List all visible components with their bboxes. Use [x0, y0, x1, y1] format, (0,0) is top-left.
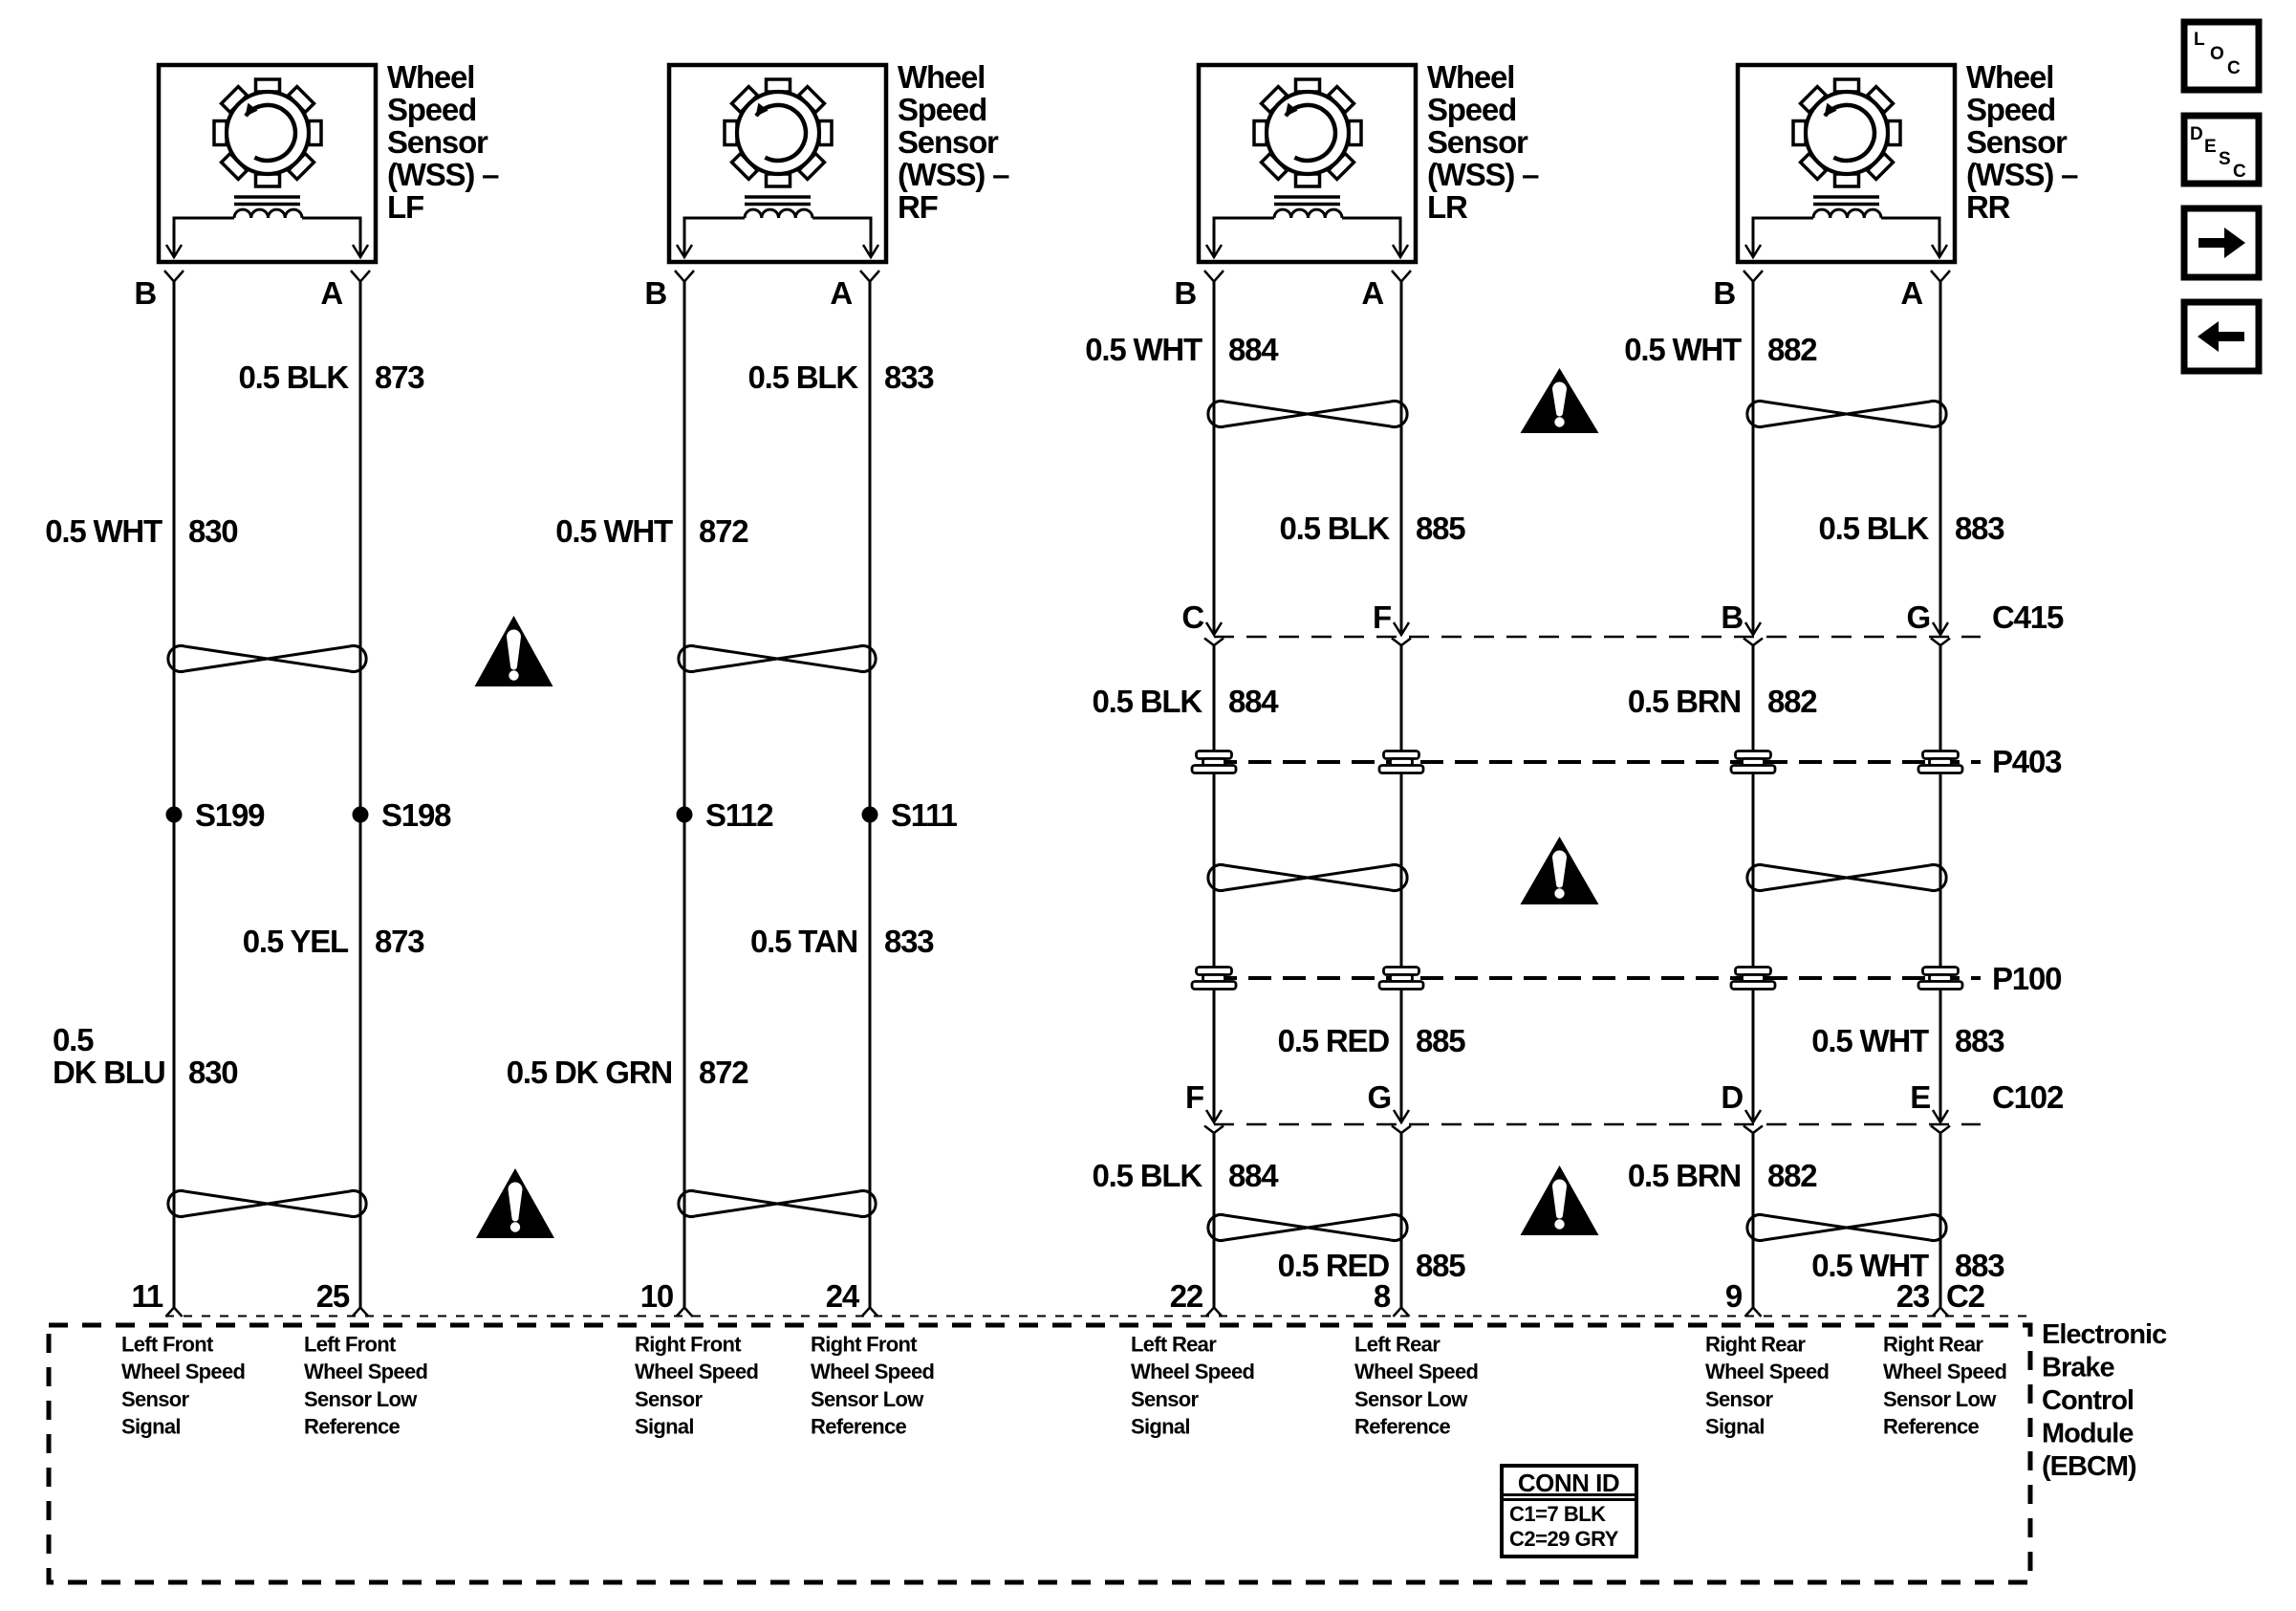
svg-text:L: L [2194, 30, 2205, 50]
svg-text:0.5 WHT: 0.5 WHT [1624, 332, 1742, 367]
svg-text:Wheel: Wheel [898, 59, 985, 95]
svg-text:C: C [2233, 162, 2246, 182]
svg-text:883: 883 [1955, 1023, 2004, 1058]
svg-text:0.5 BLK: 0.5 BLK [1093, 1158, 1203, 1193]
svg-text:Reference: Reference [811, 1415, 907, 1439]
svg-text:(WSS) –: (WSS) – [1427, 157, 1539, 192]
svg-text:Control: Control [2042, 1385, 2134, 1416]
svg-text:884: 884 [1228, 684, 1279, 719]
svg-text:O: O [2210, 44, 2224, 64]
svg-text:B: B [1713, 275, 1735, 311]
svg-text:Sensor Low: Sensor Low [304, 1387, 418, 1411]
svg-text:Speed: Speed [1427, 92, 1516, 127]
svg-text:11: 11 [132, 1278, 163, 1314]
svg-text:C: C [1181, 599, 1203, 635]
svg-text:(EBCM): (EBCM) [2042, 1451, 2136, 1482]
svg-text:Wheel: Wheel [1427, 59, 1514, 95]
svg-text:Sensor: Sensor [1705, 1387, 1774, 1411]
svg-text:Left Front: Left Front [121, 1333, 214, 1357]
svg-text:872: 872 [699, 1055, 748, 1090]
svg-text:884: 884 [1228, 332, 1279, 367]
svg-text:S112: S112 [705, 797, 773, 833]
svg-text:883: 883 [1955, 511, 2004, 546]
svg-text:Wheel Speed: Wheel Speed [1705, 1360, 1829, 1383]
svg-text:Right Rear: Right Rear [1883, 1333, 1983, 1357]
svg-text:Module: Module [2042, 1419, 2134, 1449]
svg-text:Reference: Reference [1883, 1415, 1980, 1439]
svg-text:Left Rear: Left Rear [1354, 1333, 1440, 1357]
svg-text:Wheel: Wheel [1966, 59, 2053, 95]
svg-text:9: 9 [1725, 1278, 1743, 1314]
svg-text:23: 23 [1896, 1278, 1930, 1314]
svg-text:RF: RF [898, 189, 938, 225]
svg-text:0.5 BRN: 0.5 BRN [1628, 1158, 1741, 1193]
svg-text:833: 833 [884, 924, 934, 959]
svg-text:RR: RR [1966, 189, 2011, 225]
svg-text:0.5 YEL: 0.5 YEL [243, 924, 349, 959]
svg-text:Sensor: Sensor [1131, 1387, 1200, 1411]
svg-text:0.5 RED: 0.5 RED [1278, 1023, 1390, 1058]
svg-text:A: A [830, 275, 852, 311]
svg-text:0.5 TAN: 0.5 TAN [750, 924, 857, 959]
svg-text:Wheel: Wheel [387, 59, 474, 95]
svg-text:D: D [1721, 1079, 1743, 1115]
svg-text:885: 885 [1416, 511, 1465, 546]
svg-text:S199: S199 [195, 797, 265, 833]
svg-text:Speed: Speed [898, 92, 986, 127]
svg-text:E: E [1910, 1079, 1930, 1115]
svg-text:885: 885 [1416, 1023, 1465, 1058]
svg-text:25: 25 [316, 1278, 350, 1314]
svg-text:DK BLU: DK BLU [53, 1055, 164, 1090]
svg-text:Sensor: Sensor [1966, 124, 2068, 160]
svg-text:882: 882 [1767, 332, 1817, 367]
svg-text:882: 882 [1767, 684, 1817, 719]
svg-text:G: G [1368, 1079, 1391, 1115]
svg-text:S111: S111 [891, 797, 957, 833]
svg-text:Wheel Speed: Wheel Speed [1131, 1360, 1254, 1383]
svg-text:0.5 RED: 0.5 RED [1278, 1248, 1390, 1283]
svg-text:Sensor Low: Sensor Low [1354, 1387, 1468, 1411]
svg-text:CONN ID: CONN ID [1518, 1469, 1619, 1497]
svg-text:Sensor: Sensor [121, 1387, 190, 1411]
svg-text:Signal: Signal [1131, 1415, 1190, 1439]
svg-text:F: F [1185, 1079, 1203, 1115]
svg-text:872: 872 [699, 513, 748, 549]
svg-text:Left Rear: Left Rear [1131, 1333, 1217, 1357]
svg-text:Speed: Speed [1966, 92, 2055, 127]
svg-text:P100: P100 [1992, 961, 2061, 996]
svg-text:C2: C2 [1946, 1278, 1985, 1314]
svg-text:Wheel Speed: Wheel Speed [635, 1360, 758, 1383]
svg-text:Sensor: Sensor [898, 124, 999, 160]
svg-text:(WSS) –: (WSS) – [387, 157, 499, 192]
svg-text:830: 830 [188, 513, 237, 549]
svg-text:833: 833 [884, 359, 934, 395]
svg-text:Sensor Low: Sensor Low [811, 1387, 924, 1411]
svg-text:Wheel Speed: Wheel Speed [811, 1360, 934, 1383]
svg-text:10: 10 [640, 1278, 673, 1314]
svg-text:Sensor Low: Sensor Low [1883, 1387, 1997, 1411]
svg-text:A: A [320, 275, 342, 311]
svg-text:8: 8 [1374, 1278, 1391, 1314]
svg-text:830: 830 [188, 1055, 237, 1090]
svg-text:Electronic: Electronic [2042, 1319, 2167, 1350]
svg-text:0.5 BLK: 0.5 BLK [748, 359, 859, 395]
svg-text:S: S [2219, 149, 2231, 169]
svg-text:0.5 WHT: 0.5 WHT [1811, 1023, 1929, 1058]
svg-text:(WSS) –: (WSS) – [898, 157, 1009, 192]
svg-text:P403: P403 [1992, 744, 2062, 779]
svg-text:F: F [1373, 599, 1391, 635]
svg-text:B: B [1721, 599, 1743, 635]
svg-text:0.5 BLK: 0.5 BLK [1819, 511, 1930, 546]
svg-text:Signal: Signal [1705, 1415, 1765, 1439]
svg-text:873: 873 [375, 359, 424, 395]
svg-text:0.5 WHT: 0.5 WHT [45, 513, 162, 549]
svg-text:Brake: Brake [2042, 1353, 2114, 1383]
svg-text:Wheel Speed: Wheel Speed [1354, 1360, 1478, 1383]
svg-text:0.5: 0.5 [53, 1022, 94, 1057]
svg-text:G: G [1907, 599, 1930, 635]
svg-text:885: 885 [1416, 1248, 1465, 1283]
svg-text:Wheel Speed: Wheel Speed [304, 1360, 427, 1383]
svg-text:C2=29 GRY: C2=29 GRY [1509, 1527, 1619, 1551]
svg-text:LF: LF [387, 189, 423, 225]
svg-text:0.5 WHT: 0.5 WHT [1085, 332, 1202, 367]
svg-text:Wheel Speed: Wheel Speed [1883, 1360, 2006, 1383]
svg-text:Reference: Reference [304, 1415, 401, 1439]
svg-text:22: 22 [1170, 1278, 1203, 1314]
svg-text:C102: C102 [1992, 1079, 2064, 1115]
svg-text:Sensor: Sensor [1427, 124, 1528, 160]
svg-text:Sensor: Sensor [635, 1387, 704, 1411]
svg-text:B: B [644, 275, 666, 311]
svg-text:Speed: Speed [387, 92, 476, 127]
svg-text:Reference: Reference [1354, 1415, 1451, 1439]
svg-text:B: B [134, 275, 156, 311]
svg-text:B: B [1174, 275, 1196, 311]
svg-text:882: 882 [1767, 1158, 1817, 1193]
svg-text:A: A [1900, 275, 1922, 311]
svg-text:A: A [1361, 275, 1383, 311]
svg-text:Right Front: Right Front [811, 1333, 918, 1357]
svg-text:884: 884 [1228, 1158, 1279, 1193]
svg-text:873: 873 [375, 924, 424, 959]
svg-text:(WSS) –: (WSS) – [1966, 157, 2078, 192]
svg-text:Signal: Signal [121, 1415, 181, 1439]
svg-text:0.5 BRN: 0.5 BRN [1628, 684, 1741, 719]
svg-text:C415: C415 [1992, 599, 2064, 635]
svg-text:Sensor: Sensor [387, 124, 488, 160]
svg-text:Left Front: Left Front [304, 1333, 397, 1357]
svg-text:C1=7 BLK: C1=7 BLK [1509, 1502, 1606, 1526]
svg-text:0.5 WHT: 0.5 WHT [555, 513, 673, 549]
svg-text:Right Front: Right Front [635, 1333, 742, 1357]
svg-text:Right Rear: Right Rear [1705, 1333, 1806, 1357]
svg-text:Wheel Speed: Wheel Speed [121, 1360, 245, 1383]
svg-text:LR: LR [1427, 189, 1468, 225]
svg-text:C: C [2227, 58, 2241, 78]
svg-text:0.5 DK GRN: 0.5 DK GRN [507, 1055, 672, 1090]
svg-text:Signal: Signal [635, 1415, 694, 1439]
svg-text:S198: S198 [381, 797, 451, 833]
svg-text:24: 24 [826, 1278, 860, 1314]
svg-text:0.5 BLK: 0.5 BLK [239, 359, 350, 395]
svg-text:E: E [2204, 137, 2217, 157]
svg-text:D: D [2190, 124, 2203, 144]
svg-text:0.5 BLK: 0.5 BLK [1093, 684, 1203, 719]
svg-text:0.5 BLK: 0.5 BLK [1280, 511, 1391, 546]
